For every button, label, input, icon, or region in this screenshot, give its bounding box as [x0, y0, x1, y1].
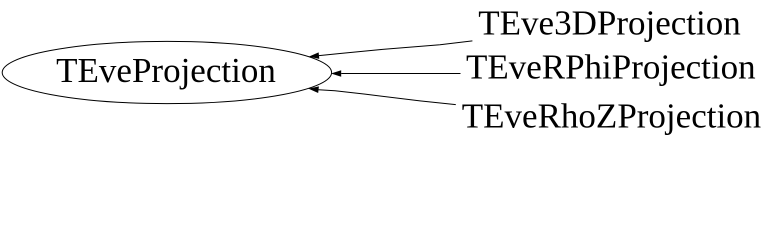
- svg-text:TEveProjection: TEveProjection: [56, 51, 276, 90]
- svg-text:TEveRhoZProjection: TEveRhoZProjection: [462, 97, 761, 136]
- svg-text:TEveRPhiProjection: TEveRPhiProjection: [466, 48, 756, 87]
- svg-text:TEve3DProjection: TEve3DProjection: [478, 3, 740, 42]
